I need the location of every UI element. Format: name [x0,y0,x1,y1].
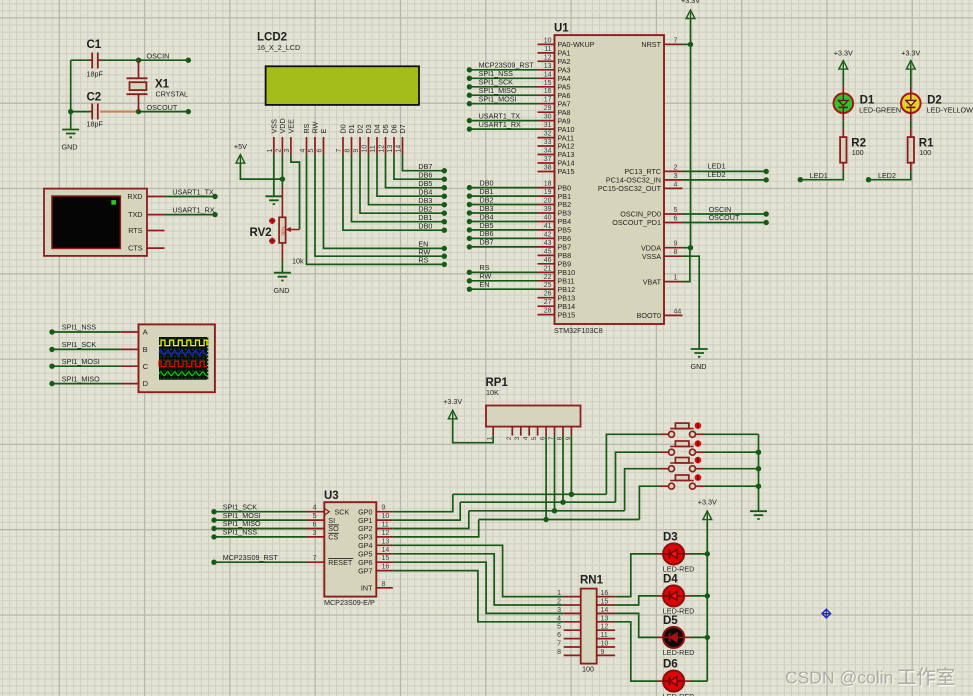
power +3.3V above U1 [681,0,700,20]
U3 pin 3 CS [307,530,339,542]
wire LCD RS [307,154,445,264]
U1 pin 8 VSSA [642,249,683,261]
terminal RW lcd-side [442,254,447,259]
wire GP2 net horizontal [469,510,625,512]
U1 pin 1 VBAT [643,275,683,287]
capacitor C1 plates [91,53,93,69]
junction VDDA/+3.3V [688,245,693,250]
svg-text:10K: 10K [486,388,499,397]
LCD2 type 16_X_2_LCD [257,43,300,52]
wire RV2 to ground [281,261,283,273]
net label SPI1_SCK u1-side [479,78,514,87]
wire DB5 to U1 [469,229,537,231]
RN1 value 100 [582,664,594,673]
net label DB1 u1-side [480,187,494,196]
LED D2 [901,93,921,113]
net label SPI1_MISO u3-side [223,519,261,528]
RN1 pin 9 [597,649,615,656]
svg-text:USART1_RX: USART1_RX [479,120,521,129]
svg-text:15: 15 [544,80,552,87]
D2 cathode lead [910,114,912,121]
terminal USART1_RX [212,212,217,217]
respack RP1 body [486,406,581,427]
RN1 pin 11 [597,632,615,639]
R2 bottom lead [842,163,844,172]
net label DB5 lcd-side [418,179,432,188]
D2 ref [927,94,942,106]
wire D4 to rail [691,595,708,597]
svg-text:NRST: NRST [641,40,661,49]
svg-text:LCD2: LCD2 [257,32,287,44]
net label DB6 u1-side [480,229,494,238]
net label EN lcd-side [418,240,428,249]
svg-text:18pF: 18pF [87,120,104,129]
svg-text:4: 4 [523,436,530,440]
svg-text:PC15-OSC32_OUT: PC15-OSC32_OUT [598,184,662,193]
wire SPI1_MISO to U3 [214,528,307,530]
svg-text:45: 45 [544,248,552,255]
svg-text:26: 26 [544,291,552,298]
D6 type LED-RED [663,692,695,696]
svg-text:6: 6 [557,632,561,639]
svg-text:6: 6 [313,522,317,529]
svg-text:43: 43 [544,240,552,247]
net label DB4 u1-side [480,212,494,221]
wire SPI1_SCK to U1 [469,86,537,88]
net label USART1_RX u1-side [479,120,521,129]
svg-text:10: 10 [382,513,390,520]
LCD2 pin 2 VDD [276,118,287,154]
wire USART1_RX [165,214,216,216]
U1 pin 41 PB5 [538,223,572,235]
ground label GND u1 [691,362,707,371]
svg-text:+3.3V: +3.3V [443,397,462,406]
LCD2 pin 4 RS [300,123,311,154]
net label LED1 right-side [810,171,828,180]
terminal OSCIN u1-side [764,211,769,216]
wire GP7 to RN1 pin4 [393,571,564,622]
wire LCD RW [315,154,444,256]
wire SPI1_NSS to scope A [52,331,120,333]
svg-text:15: 15 [382,555,390,562]
wire MCP23S09_RST to U3 [214,561,307,563]
svg-text:MCP23S09-E/P: MCP23S09-E/P [324,598,375,607]
R2 ref [851,138,866,150]
wire D1 to R2 [842,120,844,128]
U1 pin 33 PA12 [538,139,575,151]
net label LED1 u1-side [708,162,726,171]
net label LED2 u1-side [708,170,726,179]
D4 ref [663,573,678,585]
U1 pin 20 PB2 [538,198,572,210]
wire USART1_TX to U1 [469,120,537,122]
terminal DB4 u1-side [467,219,472,224]
U1 pin 4 PC15-OSC32_OUT [598,181,683,193]
button SW2 left lead [660,451,669,453]
LED D3 [663,543,684,564]
svg-text:USART1_RX: USART1_RX [172,205,214,214]
svg-text:E: E [319,129,328,134]
wire VSSA to ground [683,256,700,349]
terminal pin label CTS [128,244,143,253]
svg-text:38: 38 [544,165,552,172]
U1 pin 42 PB6 [538,231,572,243]
wire LCD VSS to ground [273,154,275,196]
wire GP5 to RN1 pin2 [393,554,564,605]
wire GP2 from U3 [393,511,469,529]
wire DB0 to U1 [469,187,537,189]
RP1 pin 1 [487,427,494,441]
ground symbol below LCD VSS [265,196,282,204]
svg-text:U1: U1 [554,23,569,35]
svg-text:SPI1_MOSI: SPI1_MOSI [62,357,100,366]
svg-text:C: C [143,362,149,371]
wire MCP23S09_RST to U1 [469,69,537,71]
svg-text:10k: 10k [292,257,304,266]
wire button SW2 to gnd rail [704,451,759,453]
U1 pin 38 PA15 [538,165,575,177]
svg-text:SPI1_MOSI: SPI1_MOSI [479,95,517,104]
RN1 pin 16 [597,590,615,597]
svg-text:9: 9 [601,649,605,656]
svg-text:100: 100 [582,664,594,673]
junction NRST/+3.3V [688,42,693,47]
net label USART1_RX [172,205,214,214]
crystal X1 value [156,90,189,99]
svg-text:GND: GND [62,143,78,152]
wire LCD DB2 [360,154,444,213]
LCD2 pin 5 RW [308,121,319,154]
LCD2 pin 9 D2 [353,124,364,154]
net label USART1_TX [172,188,214,197]
U3 pin 13 GP4 [358,538,393,550]
svg-text:25: 25 [544,282,552,289]
svg-text:4: 4 [674,181,678,188]
svg-text:3: 3 [674,173,678,180]
wire R1 to LED2 [869,172,911,180]
net label RS u1-side [480,263,490,272]
wire button SW3 to gnd rail [704,468,759,470]
junction gnd rail y486 [756,484,761,489]
LCD2 pin 10 D3 [362,124,373,154]
svg-text:+3.3V: +3.3V [834,49,853,58]
svg-text:11: 11 [382,522,389,529]
CSDN watermark [785,667,956,690]
RP1 pin 7 [548,427,555,441]
svg-text:13: 13 [601,615,609,622]
svg-text:1: 1 [557,590,561,597]
R1 ref [919,138,934,150]
wire SPI1_SCK to scope B [52,348,120,350]
D2 anode lead [910,86,912,93]
terminal USART1_RX u1-side [467,126,472,131]
svg-text:PB15: PB15 [558,310,576,319]
svg-text:4: 4 [557,615,561,622]
wire LCD DB0 [343,154,444,230]
RP1 pin 3 [514,427,521,441]
svg-text:37: 37 [544,156,552,163]
wire +5V to VDD rail [240,164,282,180]
LCD2 pin 1 VSS [267,119,278,154]
U1 pin 7 NRST [641,37,682,49]
RP1 pin 2 [506,427,513,441]
net label DB4 lcd-side [418,188,432,197]
terminal MCP23S09_RST u3-side [211,560,216,565]
svg-text:D4: D4 [663,573,678,585]
D6 ref [663,659,678,671]
push button SW1 [669,423,696,437]
RP1 value 10K [486,388,499,397]
wire NRST stub join [683,43,691,45]
push button SW4 [669,475,696,489]
svg-text:U3: U3 [324,490,339,502]
U1 pin 43 PB7 [538,240,572,252]
svg-text:5: 5 [674,207,678,214]
svg-text:17: 17 [544,97,552,104]
svg-text:4: 4 [313,505,317,512]
terminal USART1_TX [212,194,217,199]
svg-text:OSCOUT: OSCOUT [147,103,178,112]
U3 pin 6 SO [307,522,340,534]
terminal OSCOUT u1-side [764,220,769,225]
terminal RTS stub [147,230,165,232]
net label DB2 u1-side [480,195,494,204]
net label DB7 u1-side [480,238,494,247]
wire RW to U1 [469,280,537,282]
wire +3.3V to D1 [842,70,844,86]
svg-text:32: 32 [544,131,552,138]
RP1 pin 6 [540,427,547,441]
terminal DB4 lcd-side [442,194,447,199]
U3 pin 4 SCK [307,505,350,517]
RP1 pin 9 [565,427,572,441]
net label EN u1-side [480,280,490,289]
svg-text:2: 2 [674,164,678,171]
LCD2 pin 3 VEE [284,119,295,154]
svg-text:OSCOUT_PD1: OSCOUT_PD1 [612,218,661,227]
RP1 ref [486,377,509,389]
svg-text:13: 13 [544,63,552,70]
terminal SPI1_NSS u3-side [211,534,216,539]
oscilloscope pin C [120,362,148,371]
D1 cathode lead [842,114,844,121]
svg-text:CSDN @colin: CSDN @colin [785,668,893,688]
terminal DB7 lcd-side [442,168,447,173]
svg-text:20: 20 [544,198,552,205]
D3 cathode lead [658,553,664,555]
wire VBAT up to VDDA junction [683,248,690,282]
U1 pin 34 PA13 [538,148,575,160]
junction at C2/X1 [136,109,141,114]
net label OSCOUT [147,103,178,112]
RN1 pin 6 [557,632,581,639]
ground label GND [62,143,78,152]
oscilloscope screen [159,337,208,380]
svg-text:2: 2 [557,599,561,606]
net label OSCIN u1-side [709,205,732,214]
wire GP0 net horizontal [453,493,607,495]
svg-text:EN: EN [480,280,490,289]
wire GP3 net horizontal [479,519,640,521]
svg-text:50%: 50% [280,226,285,235]
svg-text:USART1_TX: USART1_TX [172,188,214,197]
U1 pin 40 PB4 [538,215,572,227]
net label RS lcd-side [418,256,428,265]
svg-text:D: D [143,379,149,388]
svg-text:34: 34 [544,148,552,155]
wire GP3 from U3 [393,520,479,537]
potentiometer RV2 body [279,217,286,243]
U1 part STM32F103C8 [554,326,603,335]
capacitor C2 plates [90,104,98,120]
terminal DB0 lcd-side [442,228,447,233]
svg-text:X1: X1 [155,79,170,91]
LCD2 pin 8 D1 [345,124,356,154]
U3 pin 8 INT [361,581,393,593]
wire USART1_RX to U1 [469,128,537,130]
svg-text:2: 2 [506,436,513,440]
svg-text:16: 16 [601,590,609,597]
U3 part MCP23S09-E/P [324,598,375,607]
svg-text:42: 42 [544,231,552,238]
svg-text:46: 46 [544,257,552,264]
wire GP1 from U3 [393,502,460,520]
net label DB1 lcd-side [418,213,432,222]
svg-text:6: 6 [674,216,678,223]
wire SPI1_MOSI to U3 [214,519,307,521]
net label SPI1_MISO u1-side [479,86,517,95]
junction gnd rail y468 [756,466,761,471]
svg-text:16: 16 [544,88,552,95]
capacitor C2 ref [87,92,102,104]
U1 pin 5 OSCIN_PD0 [620,207,682,219]
power +3.3V left of RP1 [443,397,462,421]
wire DB1 to U1 [469,195,537,197]
net label DB0 u1-side [480,178,494,187]
junction gnd rail y452 [756,450,761,455]
U1 pin 3 PC14-OSC32_IN [606,173,683,185]
U1 pin 13 PA3 [538,63,571,75]
junction RP1 pin7 [552,508,557,513]
net label OSCIN [147,52,170,61]
U1 pin 37 PA14 [538,156,575,168]
svg-text:BOOT0: BOOT0 [637,311,661,320]
wire button SW1 to gnd rail [704,433,759,435]
svg-text:RN1: RN1 [580,575,604,587]
push button SW3 [669,458,696,472]
net label SPI1_MISO scope-side [62,374,100,383]
terminal USART1_TX u1-side [467,118,472,123]
LCD2 pin 12 D5 [379,124,390,154]
net label SPI1_SCK u3-side [223,502,258,511]
svg-text:30: 30 [544,114,552,121]
U3 pin 11 GP2 [358,522,393,534]
LCD2 pin 7 D0 [336,124,347,154]
RN1 pin 5 [557,624,581,631]
terminal SPI1_MISO scope-side [49,381,54,386]
svg-text:RS: RS [418,256,428,265]
D1 type [859,105,901,114]
wire D3 to rail [691,553,708,555]
wire RP1 pin8 pull-up [562,436,564,503]
junction rail D4 [705,593,710,598]
net label MCP23S09_RST u3-side [223,553,279,562]
svg-text:LED-RED: LED-RED [663,692,695,696]
net label USART1_TX u1-side [479,111,521,120]
net label SPI1_SCK scope-side [62,340,97,349]
terminal SPI1_MOSI u1-side [467,101,472,106]
RP1 pin 8 [557,427,564,441]
wire OSCIN net [101,59,188,61]
D3 anode lead [684,553,691,555]
svg-text:LED-RED: LED-RED [663,648,695,657]
svg-text:3: 3 [514,436,521,440]
svg-text:D7: D7 [398,124,407,133]
svg-text:13: 13 [382,538,390,545]
net label SPI1_MOSI u1-side [479,95,517,104]
wire OSCIN from PD0 [683,213,767,215]
wire RN1 pin15 to D4 [615,596,657,605]
RV2 ref [250,227,272,239]
svg-text:5: 5 [531,436,538,440]
terminal DB7 u1-side [467,244,472,249]
terminal EN lcd-side [442,246,447,251]
svg-text:7: 7 [557,641,561,648]
net label SPI1_MOSI u3-side [223,511,261,520]
svg-text:7: 7 [674,37,678,44]
wire LED1 from PC13 [683,170,767,172]
U1 pin 19 PB1 [538,189,572,201]
capacitor C1 value [87,70,104,79]
wire DB4 to U1 [469,221,537,223]
RN1 pin 4 [557,615,581,622]
svg-text:LED2: LED2 [708,170,726,179]
capacitor C2 value [87,120,104,129]
RN1 pin 3 [557,607,581,614]
RN1 pin 13 [597,615,615,622]
D5 ref [663,615,678,627]
wire +3.3V to D2 [910,70,912,86]
wire RS to U1 [469,271,537,273]
wire OSCOUT net [136,111,188,113]
net label DB3 u1-side [480,204,494,213]
wire +3.3V rail to NRST/VDDA [690,20,692,248]
svg-text:DB0: DB0 [418,222,432,231]
RV2 marker top [269,218,275,224]
LED D4 [663,585,684,606]
D5 cathode lead [658,636,664,638]
RP1 pin 4 [523,427,530,441]
ground symbol below U1 [691,349,708,357]
junction +5V/VDD [280,176,285,181]
svg-text:C1: C1 [87,39,102,51]
terminal OSCIN [186,58,191,63]
wire LCD DB4 [377,154,444,196]
wire LCD EN [324,154,445,248]
wire RP1 pin7 pull-up [554,436,556,511]
svg-text:OSCOUT: OSCOUT [709,213,740,222]
svg-text:VSSA: VSSA [642,252,661,261]
svg-text:9: 9 [382,505,386,512]
terminal RS lcd-side [442,262,447,267]
svg-text:16: 16 [382,564,390,571]
wire LCD DB5 [386,154,445,187]
svg-text:29: 29 [544,105,552,112]
svg-text:D3: D3 [663,531,678,543]
svg-text:SCK: SCK [335,507,350,516]
svg-text:5: 5 [313,513,317,520]
U1 pin 9 VDDA [641,241,682,253]
